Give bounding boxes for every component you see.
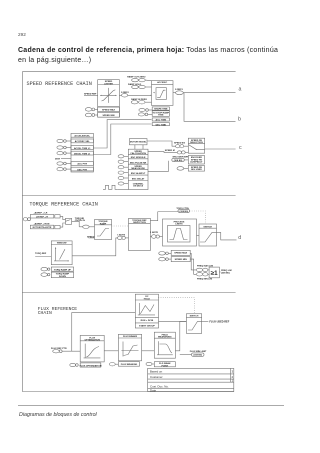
- row EXT REF2: [30, 225, 54, 229]
- svg-text:ACC/DEC SEL: ACC/DEC SEL: [75, 140, 90, 143]
- svg-text:FREQ MIN LIM: FREQ MIN LIM: [197, 278, 212, 280]
- block TORQUE SELECTOR D: [199, 224, 217, 246]
- block SPEED LIMITER U1: [98, 80, 120, 118]
- oval acc ptr: [57, 162, 63, 165]
- wire flux ref up to dc hold: [72, 313, 136, 352]
- wire decel time to dec time row: [93, 124, 151, 155]
- row SPEED MAX 20.01: [98, 106, 120, 108]
- svg-text:SHAPE TIME: SHAPE TIME: [154, 108, 168, 111]
- section divider torque/flux: [22, 292, 235, 294]
- svg-text:ACC/DEC: ACC/DEC: [157, 81, 167, 84]
- oval speed fb sel: [177, 167, 184, 171]
- svg-text:SPEED MIN: SPEED MIN: [102, 115, 114, 117]
- svg-text:FLUX BRAKING: FLUX BRAKING: [121, 363, 138, 366]
- oval torq used ref: [152, 235, 156, 239]
- svg-text:ENC DELAY: ENC DELAY: [132, 178, 145, 181]
- svg-text:FLUX USED REF: FLUX USED REF: [209, 321, 229, 324]
- svg-text:Date: Date: [150, 388, 156, 392]
- dotted wire torq ctrl to selector D: [190, 211, 206, 224]
- block WINDOW B: [51, 241, 72, 265]
- row ACC TIME: [152, 118, 169, 121]
- svg-text:ENC PULSE NR: ENC PULSE NR: [130, 162, 147, 164]
- limiter transfer symbol: [100, 88, 116, 103]
- wire DC hold to J: [159, 320, 187, 322]
- ovals RAMP OUT ZERO: [132, 78, 139, 81]
- row START GROUP: [135, 322, 158, 324]
- block SPEED FB SEL: [188, 166, 204, 172]
- oval decel time 1: [57, 151, 63, 154]
- svg-text:d: d: [238, 235, 241, 241]
- svg-text:SWITCH: SWITCH: [190, 316, 199, 318]
- row ENC MODULE: [128, 158, 148, 160]
- svg-text:LIMITS: LIMITS: [175, 223, 183, 225]
- wire speed min to freq ovals: [190, 259, 196, 274]
- wire H to I: [142, 350, 155, 352]
- svg-text:Customer: Customer: [150, 375, 163, 379]
- svg-text:FLUX MIN LIMIT: FLUX MIN LIMIT: [190, 351, 207, 353]
- svg-text:RUN + DC/B: RUN + DC/B: [141, 320, 154, 322]
- wire I to riser to J: [175, 321, 186, 350]
- wire E to D: [197, 235, 200, 237]
- svg-text:ACC PTR: ACC PTR: [77, 163, 87, 166]
- oval fld weak param: [146, 362, 152, 365]
- wire SPEED REF to limiter: [84, 94, 98, 96]
- wire selector to ramp A: [72, 221, 80, 227]
- wire ramp hold to box: [145, 86, 151, 88]
- svg-text:DI1R: DI1R: [55, 158, 60, 160]
- svg-text:POINT: POINT: [161, 365, 168, 367]
- svg-text:(308 B0): (308 B0): [221, 272, 230, 274]
- row ACC/DEC TIME SCALE: [152, 111, 169, 117]
- ovals freq min lim: [196, 273, 202, 276]
- svg-text:SPEED MAX: SPEED MAX: [174, 252, 187, 255]
- svg-text:DEC PTR: DEC PTR: [77, 169, 87, 171]
- wire C up to TORQ CTRL oval: [150, 212, 178, 221]
- svg-text:LIMITER: LIMITER: [104, 83, 113, 85]
- svg-text:ACCEL TIME L1: ACCEL TIME L1: [74, 147, 91, 150]
- svg-text:1 NOTE: 1 NOTE: [150, 232, 158, 234]
- field weakening curve: [157, 341, 173, 355]
- wire window B out to oval and selection C: [72, 238, 118, 256]
- svg-text:S REF3: S REF3: [175, 89, 183, 91]
- wire a: [183, 92, 235, 94]
- svg-text:EXT1/EXT2+EXTR: EXT1/EXT2+EXTR: [33, 227, 52, 229]
- oval accel time 1: [57, 146, 63, 149]
- oval torque cntrl in: [83, 225, 90, 228]
- OR gate >=1: [209, 267, 219, 278]
- oval ext ref: [23, 218, 27, 221]
- ramp symbol: [153, 88, 166, 100]
- svg-text:b: b: [238, 117, 241, 123]
- svg-text:SPEED MAX: SPEED MAX: [102, 109, 115, 112]
- ovals freq max lim: [196, 268, 202, 271]
- svg-text:SPEED MIN: SPEED MIN: [175, 259, 187, 261]
- wire ref1 to selector: [60, 216, 65, 219]
- dc hold symbol: [138, 303, 155, 315]
- svg-text:MOTOR MODEL: MOTOR MODEL: [130, 142, 147, 144]
- svg-text:ENC ALM/FLT: ENC ALM/FLT: [131, 172, 146, 175]
- dotted wire ramp A to selection C: [112, 225, 129, 227]
- block SPEED MEASUREMENT U5: [128, 149, 148, 189]
- bell curve sub box: [168, 226, 191, 243]
- row ENC ALM/FLT: [128, 174, 148, 176]
- wire ramp out to oval: [173, 92, 176, 94]
- oval channel: [118, 182, 124, 185]
- ovals shape time: [139, 108, 145, 111]
- parameter oval 2002: [85, 113, 92, 117]
- svg-text:MEAS MODE: MEAS MODE: [131, 167, 145, 170]
- row EXT REF1: [30, 215, 54, 219]
- row ACCEL TIME 1: [71, 146, 93, 150]
- svg-text:ACCEL/DECEL: ACCEL/DECEL: [74, 134, 90, 137]
- svg-text:ACC TIME: ACC TIME: [156, 119, 167, 122]
- block FIELD WEAKENING I: [154, 332, 175, 358]
- wire limiter to ramp block: [119, 94, 121, 96]
- row ENC PULSE NR: [128, 163, 148, 165]
- block FLUX SELECTOR J: [186, 314, 201, 334]
- oval enc module: [118, 155, 124, 158]
- svg-text:a: a: [239, 86, 242, 92]
- selector switch EXT1/EXT2: [66, 218, 72, 224]
- svg-text:SPEED REFERENCE CHAIN: SPEED REFERENCE CHAIN: [27, 81, 92, 87]
- block MOTOR MODEL U4: [129, 139, 147, 145]
- oval torq ref used: [118, 236, 122, 240]
- row SPEED MIN torque: [159, 257, 166, 261]
- wire b branch vertical: [184, 93, 236, 122]
- oval flux optimization param: [70, 363, 76, 366]
- block FLUX OPTIMIZATION G: [80, 335, 104, 362]
- window axes symbol: [54, 247, 69, 261]
- svg-text:SPEED ES: SPEED ES: [174, 143, 185, 145]
- block ENCODER FAULT SEL: [188, 156, 204, 165]
- svg-text:Based on: Based on: [150, 370, 163, 374]
- oval enc pulse nr: [118, 160, 124, 163]
- oval 308 B0: [172, 158, 185, 161]
- row ACC/DEC SEL: [71, 139, 93, 143]
- row ACC PTR: [71, 162, 93, 166]
- node SPEED MEASURED: [148, 151, 177, 154]
- oval enc delay: [118, 176, 124, 179]
- svg-text:+AI/REF + LR: +AI/REF + LR: [34, 212, 48, 215]
- row SPEED MIN 20.02: [98, 113, 120, 118]
- svg-text:TIME: TIME: [158, 115, 164, 117]
- title block table: [148, 368, 234, 391]
- svg-text:START GROUP: START GROUP: [139, 325, 155, 328]
- svg-text:SEL USED: SEL USED: [191, 169, 202, 171]
- svg-text:CHAIN: CHAIN: [38, 310, 52, 316]
- pulse waveform symbol: [103, 185, 117, 189]
- oval meas mode: [118, 166, 124, 169]
- svg-text:TORQ REF: TORQ REF: [35, 253, 47, 255]
- block TORQUE REF SELECTION C: [129, 218, 151, 250]
- svg-text:TORQUE REFERENCE CHAIN: TORQUE REFERENCE CHAIN: [29, 201, 98, 207]
- row flux optimization label: [80, 363, 101, 367]
- svg-text:c: c: [239, 145, 242, 151]
- block ACCEL/DECEL U3: [71, 133, 93, 172]
- block FLUX BRAKE H: [118, 334, 141, 361]
- svg-text:FLUX OPTIMIZATION: FLUX OPTIMIZATION: [80, 364, 102, 367]
- oval acc/dec sel ptr: [57, 139, 63, 142]
- parameter oval 2001: [85, 108, 92, 112]
- switch symbol J: [188, 321, 202, 330]
- block ACC/DEC/SHAPE U2: [152, 81, 174, 106]
- row ENC DELAY: [128, 180, 148, 182]
- wire ramp in zero to box: [145, 101, 152, 103]
- row TORQ RAMP UP: [41, 267, 48, 271]
- wire accel time to acc time row: [93, 120, 151, 148]
- ovals acc/dec sel: [138, 113, 144, 116]
- block DC HOLD K: [135, 294, 158, 328]
- wire flux ref main: [62, 350, 80, 352]
- wire pulse to box: [117, 188, 128, 190]
- switch symbol in FB selection: [189, 145, 205, 150]
- oval 308 B0 torq ctrl: [178, 209, 190, 212]
- wire riser to flux min oval: [180, 354, 192, 356]
- svg-text:ON DDCS: ON DDCS: [133, 186, 144, 188]
- block SPEED LIMITS E: [163, 219, 197, 246]
- switch symbol D: [200, 232, 217, 242]
- flux brake symbol: [121, 342, 138, 357]
- ovals RAMP IN ZERO: [131, 101, 138, 104]
- svg-text:(308 B0): (308 B0): [193, 355, 202, 357]
- row DECEL TIME 1: [71, 151, 93, 155]
- optimization curve symbol: [84, 344, 101, 358]
- wire into ramp box top: [145, 79, 151, 82]
- oval dec ptr: [57, 167, 63, 170]
- svg-text:3: 3: [232, 370, 234, 374]
- svg-text:ENC MODULE: ENC MODULE: [131, 157, 146, 159]
- ramp A curve symbol: [97, 229, 109, 237]
- block TORQUE RAMP A: [95, 220, 112, 240]
- wire ref2 to selector: [60, 223, 65, 227]
- svg-text:DECEL TIME L1: DECEL TIME L1: [74, 153, 91, 155]
- section divider speed/torque: [22, 195, 235, 197]
- wire motor model to speed estimated: [147, 141, 176, 146]
- wire G to H: [104, 350, 118, 352]
- row SPEED MEAS MODE: [128, 169, 148, 171]
- svg-text:≥1: ≥1: [211, 270, 218, 277]
- svg-text:(308 B0): (308 B0): [180, 211, 189, 213]
- wire C output to E: [150, 236, 151, 238]
- oval flux min limit: [192, 353, 205, 356]
- svg-text:(308 B0): (308 B0): [174, 160, 183, 162]
- oval enc alm/flt: [118, 171, 124, 174]
- svg-text:DEC TIME: DEC TIME: [156, 124, 167, 126]
- row DEC TIME: [152, 123, 169, 126]
- wire motor model to speed meas stubs: [134, 145, 136, 149]
- ovals RAMP HOLD: [132, 85, 139, 88]
- row fld weak point: [154, 362, 175, 367]
- dotted wire dc hold top to J: [159, 298, 195, 314]
- svg-text:TORQ RAMP UP: TORQ RAMP UP: [54, 269, 71, 272]
- wire d output: [217, 232, 237, 240]
- svg-text:SPEED M: SPEED M: [165, 150, 175, 152]
- wire c: [205, 148, 236, 150]
- wire err oval to encoder block: [184, 159, 188, 161]
- row DEC PTR: [71, 167, 93, 171]
- row RUN + DC HOLD: [135, 316, 158, 318]
- oval flux braking param: [109, 363, 115, 366]
- row SHAPE TIME: [152, 107, 169, 110]
- frame bottom edge: [22, 391, 234, 393]
- row TORQ RAMP DOWN: [41, 273, 48, 277]
- block SPEED FB SELECTION U6: [188, 138, 204, 153]
- wire flux used ref out: [202, 320, 209, 322]
- frame left edge: [21, 72, 23, 392]
- row flux braking label: [118, 362, 139, 367]
- svg-text:ALM/FAULT: ALM/FAULT: [190, 160, 203, 163]
- svg-text:LR REF + R: LR REF + R: [36, 216, 48, 218]
- svg-text:DOWN: DOWN: [59, 276, 66, 278]
- row SPEED MAX torque: [159, 252, 166, 256]
- wire speed max to freq ovals: [190, 253, 196, 270]
- frame top edge: [22, 71, 235, 73]
- wire speed meas to fb sel oval: [148, 161, 168, 172]
